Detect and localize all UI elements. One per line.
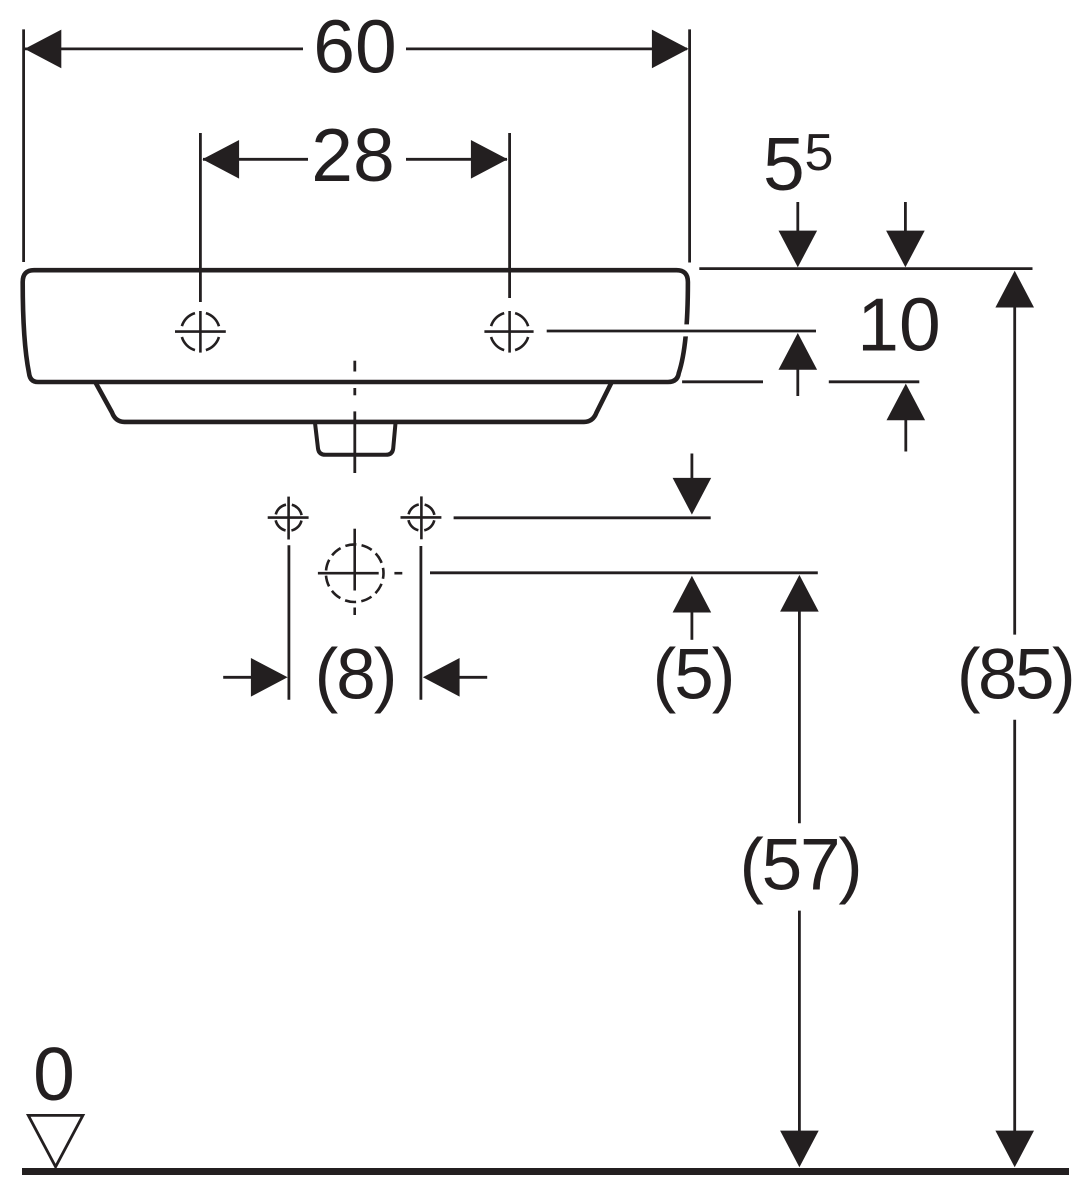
dimension 5.5 value label bbox=[763, 122, 833, 206]
fixing hole left extension line bbox=[287, 545, 290, 699]
floor baseline bbox=[22, 1168, 1069, 1175]
dimension 60 value label bbox=[313, 5, 396, 89]
svg-text:(8): (8) bbox=[315, 636, 396, 715]
dimension 60 extension line left bbox=[22, 29, 25, 262]
basin apron outline bbox=[96, 383, 612, 422]
dimension 8 arrowhead pointing right bbox=[251, 658, 288, 697]
tap hole right dashed circle bbox=[490, 312, 529, 351]
dimension 57 line upper segment bbox=[798, 610, 801, 823]
svg-text:10: 10 bbox=[857, 283, 940, 367]
svg-text:(85): (85) bbox=[957, 636, 1073, 715]
svg-text:60: 60 bbox=[313, 5, 396, 89]
svg-text:5: 5 bbox=[805, 124, 834, 182]
dimension 60 arrowhead left bbox=[25, 30, 62, 69]
dimension 28 value label bbox=[311, 113, 394, 197]
basin body outline bbox=[23, 270, 688, 382]
dimension 85 line lower segment bbox=[1013, 720, 1016, 1132]
dimension 28 arrowhead right bbox=[471, 140, 508, 179]
basin drain boss outline bbox=[315, 422, 396, 455]
fixing hole reference line bbox=[454, 516, 711, 519]
dimension 5.5 down arrow at top edge bbox=[779, 202, 818, 267]
dimension 28 arrowhead left bbox=[202, 140, 239, 179]
dimension 57 line lower segment bbox=[798, 911, 801, 1132]
fixing hole right dashed circle bbox=[408, 504, 434, 530]
centerline above right tap hole bbox=[508, 133, 511, 298]
dimension 57 up arrow bbox=[780, 575, 819, 612]
dimension 28 line right segment bbox=[406, 158, 507, 161]
fixing hole left cross lines bbox=[268, 497, 309, 540]
dimension 57 value label bbox=[739, 825, 860, 906]
dimension 5 value label bbox=[653, 636, 734, 715]
dimension 10 down arrow at top edge bbox=[886, 202, 925, 267]
basin bottom reference line right segment bbox=[829, 380, 920, 383]
top reference line bbox=[699, 267, 1032, 270]
tap hole left dashed circle bbox=[181, 312, 220, 351]
svg-text:28: 28 bbox=[311, 113, 394, 197]
dimension 85 value label bbox=[957, 636, 1073, 715]
dimension 8 value label bbox=[315, 636, 396, 715]
dimension 57 down arrow bbox=[780, 1131, 819, 1168]
dimension 60 line left segment bbox=[25, 48, 303, 51]
dimension 60 extension line right bbox=[688, 29, 691, 262]
siphon hole dashed circle bbox=[326, 544, 384, 602]
dimension 10 up arrow at basin bottom line bbox=[887, 384, 926, 452]
dimension 8 right tail line bbox=[458, 676, 487, 679]
dimension 5 up arrow bbox=[673, 576, 712, 640]
fixing hole right extension line bbox=[419, 546, 422, 700]
fixing hole left dashed circle bbox=[275, 504, 301, 530]
dimension 5 down arrow bbox=[673, 454, 712, 515]
svg-text:5: 5 bbox=[763, 122, 805, 206]
dimension 60 arrowhead right bbox=[652, 30, 689, 69]
dimension 60 line right segment bbox=[406, 48, 687, 51]
dimension 85 line upper segment bbox=[1013, 306, 1016, 635]
gap in basin right edge where reference line crosses bbox=[681, 324, 692, 336]
fixing hole right cross lines bbox=[401, 496, 442, 539]
tap hole reference line bbox=[547, 330, 816, 333]
zero level datum triangle bbox=[28, 1115, 83, 1166]
svg-text:0: 0 bbox=[33, 1032, 75, 1116]
svg-text:(57): (57) bbox=[739, 825, 860, 906]
dimension 28 line left segment bbox=[203, 158, 308, 161]
siphon hole cross lines bbox=[318, 529, 402, 615]
centerline above left tap hole bbox=[199, 133, 202, 302]
dimension 5.5 up arrow at tap hole line bbox=[779, 333, 818, 396]
svg-text:(5): (5) bbox=[653, 636, 734, 715]
drain centerline dashes bbox=[353, 361, 356, 473]
dimension 8 arrowhead pointing left bbox=[423, 658, 460, 697]
zero level label bbox=[33, 1032, 75, 1116]
dimension 8 left tail line bbox=[223, 676, 253, 679]
dimension 85 down arrow bbox=[995, 1131, 1034, 1168]
dimension 10 value label bbox=[857, 283, 940, 367]
tap hole right cross lines bbox=[484, 311, 533, 353]
dimension 85 up arrow bbox=[995, 271, 1034, 308]
basin bottom reference line left segment bbox=[682, 380, 763, 383]
siphon hole reference line bbox=[430, 571, 818, 574]
tap hole left cross lines bbox=[175, 311, 226, 353]
